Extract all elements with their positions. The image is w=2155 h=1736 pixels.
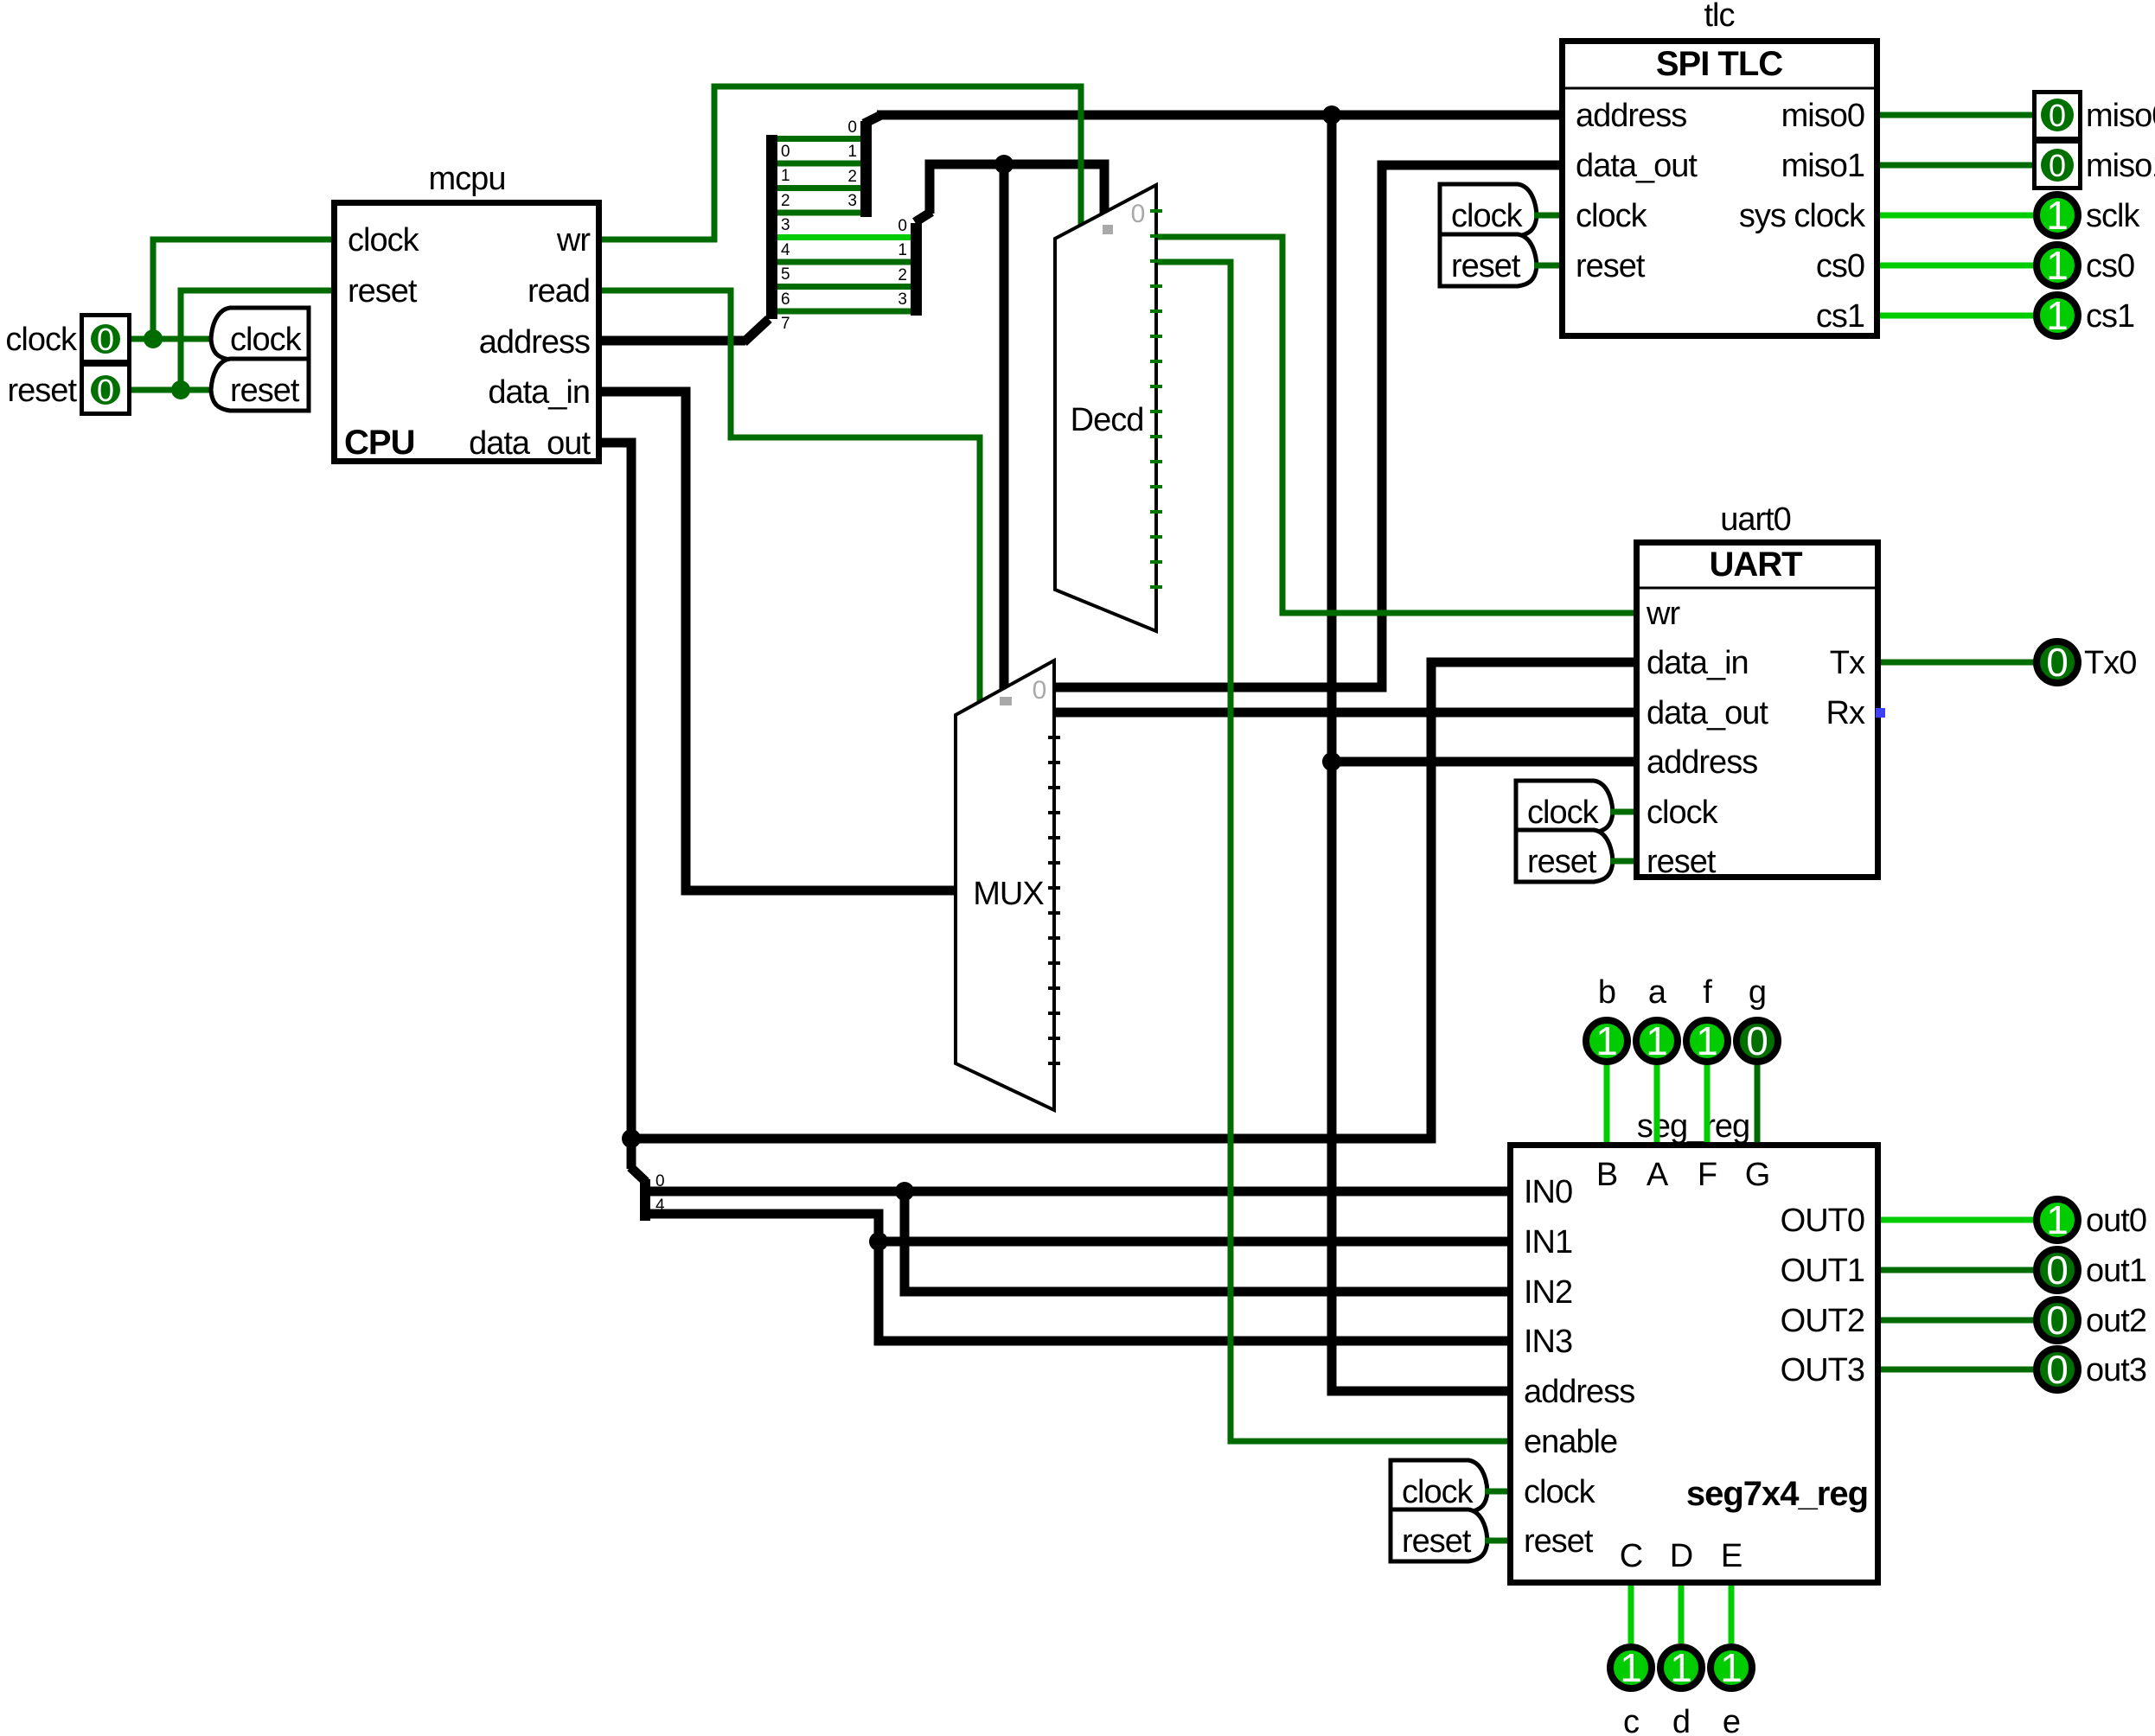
svg-text:6: 6 [781, 290, 790, 309]
svg-text:CPU: CPU [344, 424, 414, 462]
svg-text:wr: wr [1646, 596, 1680, 632]
net tag reset (CPU side) [211, 359, 309, 411]
bus: nibble 0 branch to seg IN2 [905, 1191, 1507, 1292]
bus: UART data_out to MUX in1 [1054, 708, 1634, 718]
svg-text:c: c [1623, 1704, 1639, 1736]
svg-text:0: 0 [2049, 148, 2066, 183]
wire: UART Tx [1881, 660, 2034, 666]
bus joiner bar2 (to SPI address bus) [847, 115, 881, 217]
wire: SPI cs1 [1880, 313, 2034, 319]
svg-text:MUX: MUX [973, 876, 1044, 912]
wire: CPU read to MUX enable [602, 290, 980, 701]
net tag clock (CPU side) [211, 308, 309, 360]
svg-text:out1: out1 [2086, 1253, 2146, 1289]
UART block uart0 [1634, 501, 1881, 880]
wire: seg B stem [1604, 1065, 1610, 1142]
bus splitter bar1 (address 8-bit) [766, 135, 790, 333]
svg-text:g: g [1749, 974, 1766, 1011]
svg-text:sclk: sclk [2086, 198, 2140, 234]
svg-text:0: 0 [2046, 640, 2069, 685]
svg-text:4: 4 [781, 241, 790, 259]
svg-text:data_in: data_in [488, 374, 590, 411]
svg-text:1: 1 [1720, 1645, 1743, 1690]
svg-text:0: 0 [97, 373, 114, 408]
svg-text:d: d [1672, 1704, 1690, 1736]
svg-text:out0: out0 [2086, 1203, 2146, 1239]
svg-text:out3: out3 [2086, 1352, 2146, 1388]
junction on data_out bus [622, 1129, 641, 1148]
bus: nibble 4 branch to seg IN1 [879, 1237, 1507, 1247]
svg-text:C: C [1620, 1538, 1642, 1574]
svg-text:A: A [1647, 1157, 1669, 1193]
svg-text:clock: clock [1527, 795, 1600, 831]
bus: CPU data_out branch to UART data_in [631, 662, 1634, 1139]
bus joiner bar3 (to data bus B) [898, 212, 931, 316]
svg-text:miso1: miso1 [2086, 148, 2155, 184]
wire: SPI sys clock [1880, 213, 2034, 219]
svg-text:0: 0 [2046, 1248, 2069, 1292]
svg-text:B: B [1596, 1157, 1617, 1193]
wire: seg OUT0 [1881, 1217, 2034, 1223]
svg-text:IN3: IN3 [1524, 1324, 1572, 1360]
wire: SPI cs0 [1880, 263, 2034, 269]
svg-text:1: 1 [1595, 1018, 1618, 1063]
svg-text:0: 0 [847, 118, 857, 137]
net tag clock (SPI side) [1440, 184, 1559, 236]
svg-text:clock: clock [5, 322, 78, 358]
bus: CPU data_out down [602, 443, 631, 1169]
svg-text:address: address [479, 324, 590, 361]
svg-text:clock: clock [1576, 198, 1648, 234]
wire: SPI miso0 [1880, 112, 2032, 118]
svg-text:clock: clock [1524, 1474, 1596, 1510]
svg-text:0: 0 [1033, 676, 1047, 705]
svg-text:address: address [1647, 744, 1757, 781]
wire: seg G stem [1755, 1065, 1761, 1142]
Rx unconnected pin marker [1876, 708, 1885, 718]
wire: bit taps bar1 to bar3 [777, 238, 911, 312]
svg-text:G: G [1745, 1157, 1770, 1193]
wire: Decd out1 to UART wr [1156, 237, 1634, 613]
svg-text:data_out: data_out [1576, 148, 1698, 184]
svg-text:clock: clock [230, 322, 303, 358]
svg-text:1: 1 [2046, 293, 2069, 338]
svg-text:1: 1 [2046, 1197, 2069, 1242]
svg-text:3: 3 [847, 192, 857, 210]
connector c [1610, 1645, 1652, 1736]
connector a [1636, 974, 1678, 1063]
svg-text:1: 1 [1620, 1645, 1642, 1690]
svg-text:mcpu: mcpu [429, 161, 506, 197]
svg-text:a: a [1648, 974, 1667, 1011]
svg-text:e: e [1723, 1704, 1740, 1736]
svg-text:tlc: tlc [1704, 0, 1735, 34]
junction on bus A at vertical branch [1322, 105, 1341, 124]
svg-text:cs1: cs1 [2086, 298, 2134, 335]
svg-text:Tx: Tx [1830, 645, 1865, 681]
svg-text:sys clock: sys clock [1739, 198, 1866, 234]
svg-text:enable: enable [1524, 1424, 1617, 1460]
svg-text:cs1: cs1 [1816, 298, 1864, 335]
output connector out3 [2037, 1347, 2146, 1392]
SPI TLC block tlc [1559, 0, 1880, 336]
svg-text:1: 1 [781, 167, 790, 185]
junction on bus B at MUX select [994, 155, 1014, 174]
connector b [1586, 974, 1627, 1063]
svg-text:clock: clock [1451, 198, 1524, 234]
svg-text:F: F [1698, 1157, 1717, 1193]
svg-text:2: 2 [847, 168, 857, 186]
svg-text:wr: wr [556, 222, 591, 258]
svg-text:0: 0 [2049, 98, 2066, 133]
svg-text:1: 1 [2046, 193, 2069, 238]
wire: Decd out2 to seg enable [1156, 262, 1507, 1441]
svg-text:b: b [1598, 974, 1615, 1011]
svg-text:UART: UART [1709, 546, 1802, 584]
svg-text:reset: reset [1524, 1523, 1594, 1560]
svg-text:E: E [1721, 1538, 1742, 1574]
svg-text:IN2: IN2 [1524, 1274, 1572, 1311]
svg-text:5: 5 [781, 265, 790, 284]
svg-text:D: D [1670, 1538, 1692, 1574]
junction on nibble4 bus [869, 1232, 888, 1251]
wire: seg OUT1 [1881, 1267, 2034, 1273]
wire: clock input net [131, 239, 331, 339]
svg-text:Rx: Rx [1826, 695, 1865, 731]
svg-text:reset: reset [230, 373, 300, 409]
wire: seg OUT2 [1881, 1318, 2034, 1324]
net tag clock (seg side) [1391, 1460, 1507, 1512]
svg-text:miso1: miso1 [1781, 148, 1864, 184]
svg-text:OUT0: OUT0 [1781, 1203, 1864, 1239]
svg-text:0: 0 [781, 143, 790, 161]
svg-text:0: 0 [2046, 1347, 2069, 1392]
svg-text:reset: reset [348, 273, 418, 310]
svg-text:read: read [528, 273, 590, 310]
svg-text:address: address [1576, 98, 1686, 134]
bus: branch to UART address [1332, 757, 1634, 767]
svg-text:IN0: IN0 [1524, 1174, 1572, 1210]
bus: A vertical branch down to UART address and seg address [1332, 115, 1507, 1391]
svg-text:Decd: Decd [1071, 402, 1144, 438]
connector f [1686, 974, 1728, 1063]
svg-text:1: 1 [847, 143, 857, 161]
svg-text:miso0: miso0 [1781, 98, 1864, 134]
svg-text:cs0: cs0 [2086, 248, 2134, 284]
wire: seg C stem [1628, 1586, 1634, 1643]
seg7x4_reg block seg_reg [1511, 1108, 1878, 1583]
output connector out0 [2037, 1197, 2146, 1242]
connector e [1711, 1645, 1752, 1736]
svg-text:1: 1 [898, 241, 907, 259]
svg-text:seg_reg: seg_reg [1637, 1108, 1749, 1145]
svg-text:reset: reset [1576, 248, 1646, 284]
wire: seg F stem [1704, 1065, 1711, 1142]
svg-text:reset: reset [8, 373, 78, 409]
bus splitter tapbar (data_out 8-bit to two nibbles) [630, 1167, 665, 1221]
svg-text:seg7x4_reg: seg7x4_reg [1686, 1475, 1868, 1513]
output connector miso1 [2035, 142, 2155, 188]
bus: MUX select branch [1000, 164, 1009, 697]
svg-text:reset: reset [1527, 844, 1597, 880]
svg-text:clock: clock [1647, 795, 1719, 831]
output connector out2 [2037, 1298, 2146, 1343]
wire: seg OUT3 [1881, 1367, 2034, 1373]
svg-text:address: address [1524, 1374, 1634, 1410]
svg-text:reset: reset [1402, 1523, 1472, 1560]
svg-text:2: 2 [898, 266, 907, 284]
wire: CPU wr to Decd enable [602, 86, 1081, 239]
svg-text:OUT3: OUT3 [1781, 1352, 1864, 1388]
output connector Tx0 [2037, 640, 2136, 685]
net tag clock (UART side) [1516, 781, 1634, 833]
net tag reset (SPI side) [1440, 234, 1559, 286]
output connector cs1 [2037, 293, 2134, 338]
wire: bit taps bar1 to bar2 [777, 139, 860, 214]
input connector clock [5, 316, 129, 362]
junction on nibble0 bus [895, 1182, 914, 1201]
svg-text:0: 0 [1746, 1018, 1768, 1063]
svg-text:IN1: IN1 [1524, 1224, 1572, 1261]
svg-text:7: 7 [781, 315, 790, 333]
bus: A address 4-bit to SPI address [877, 111, 1559, 120]
decoder Decd [1055, 185, 1162, 631]
connector g [1736, 974, 1778, 1063]
svg-text:1: 1 [1670, 1645, 1692, 1690]
output connector cs0 [2037, 243, 2134, 288]
svg-text:0: 0 [2046, 1298, 2069, 1343]
svg-text:clock: clock [348, 222, 420, 258]
svg-text:data_out: data_out [1647, 695, 1768, 731]
junction reset net [171, 380, 190, 399]
bus: MUX output to CPU data_in [602, 392, 956, 890]
svg-text:data_in: data_in [1647, 645, 1749, 681]
wire: address bus CPU->splitter [602, 319, 769, 342]
CPU block mcpu [335, 161, 599, 462]
svg-text:f: f [1703, 974, 1712, 1011]
svg-text:miso0: miso0 [2086, 98, 2155, 134]
net tag reset (seg side) [1391, 1509, 1507, 1561]
wire: reset input net [131, 290, 331, 390]
svg-text:clock: clock [1402, 1474, 1474, 1510]
svg-text:out2: out2 [2086, 1303, 2146, 1339]
svg-text:3: 3 [781, 216, 790, 234]
bus: nibble 4 to seg IN1/IN3 [650, 1214, 1507, 1341]
svg-text:3: 3 [898, 290, 907, 309]
svg-text:OUT2: OUT2 [1781, 1303, 1864, 1339]
svg-text:SPI TLC: SPI TLC [1656, 45, 1782, 83]
wire: seg D stem [1679, 1586, 1685, 1643]
bus: B data 4-bit from bar3 to Decd input [930, 164, 1104, 218]
svg-text:1: 1 [2046, 243, 2069, 288]
connector d [1660, 1645, 1702, 1736]
svg-text:uart0: uart0 [1720, 501, 1791, 538]
svg-text:reset: reset [1451, 248, 1521, 284]
wire: seg E stem [1729, 1586, 1735, 1643]
svg-text:1: 1 [1696, 1018, 1718, 1063]
junction clock net [144, 329, 163, 348]
input connector reset [8, 365, 130, 414]
svg-text:reset: reset [1647, 844, 1717, 880]
svg-text:2: 2 [781, 192, 790, 210]
multiplexer MUX [956, 661, 1060, 1110]
output connector out1 [2037, 1248, 2146, 1292]
output connector miso0 [2035, 93, 2155, 139]
bus: nibble 0 to seg IN0 [650, 1187, 1507, 1197]
output connector sclk [2037, 193, 2140, 238]
svg-text:cs0: cs0 [1816, 248, 1864, 284]
svg-text:0: 0 [898, 217, 907, 235]
svg-text:data_out: data_out [469, 425, 591, 462]
svg-text:0: 0 [97, 322, 114, 357]
svg-text:Tx0: Tx0 [2084, 645, 2136, 681]
bus: SPI data_out down to MUX in0 [1054, 165, 1559, 687]
wire: seg A stem [1654, 1065, 1660, 1142]
net tag reset (UART side) [1516, 830, 1634, 882]
junction on bus A at UART address [1322, 752, 1341, 771]
svg-text:OUT1: OUT1 [1781, 1253, 1864, 1289]
svg-text:1: 1 [1646, 1018, 1668, 1063]
svg-text:0: 0 [1131, 200, 1146, 228]
wire: SPI miso1 [1880, 163, 2032, 169]
